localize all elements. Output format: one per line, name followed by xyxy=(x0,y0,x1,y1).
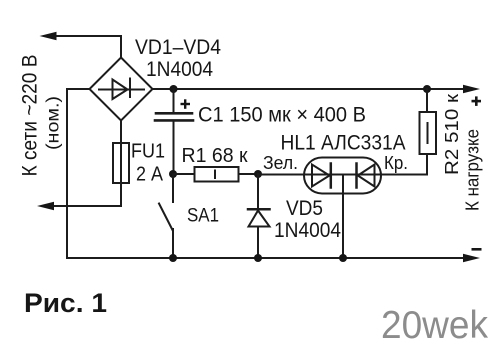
label R1 value xyxy=(182,145,248,167)
svg-text:R1 68 к: R1 68 к xyxy=(182,145,248,167)
svg-text:C1 150 мк × 400 В: C1 150 мк × 400 В xyxy=(198,104,366,127)
LED HL1 green diode xyxy=(312,164,331,188)
svg-text:HL1 АЛС331А: HL1 АЛС331А xyxy=(281,132,406,155)
wire R1 left lead xyxy=(173,173,195,175)
node junction R1 / VD5 / HL1 xyxy=(254,170,262,178)
watermark 20wek xyxy=(381,304,488,347)
label VD5 type xyxy=(274,219,341,242)
wire R1 right lead to node xyxy=(239,173,259,175)
label VD5 xyxy=(286,197,323,220)
node junction HL1 / bottom rail xyxy=(339,254,347,262)
capacitor C1 xyxy=(155,89,193,174)
svg-text:VD1–VD4: VD1–VD4 xyxy=(135,36,221,59)
label 1N4004 bridge xyxy=(146,58,213,81)
bottom rail (-) xyxy=(67,257,466,259)
resistor R1 xyxy=(195,167,239,182)
plus sign output xyxy=(472,96,482,106)
bridge rectifier VD1-VD4 xyxy=(90,58,153,121)
caption Ris. 1 xyxy=(24,288,107,318)
label FU1 xyxy=(131,141,165,163)
svg-text:Зел.: Зел. xyxy=(263,153,298,173)
label SA1 xyxy=(187,206,219,227)
svg-text:SA1: SA1 xyxy=(187,206,219,227)
label 2A xyxy=(136,164,164,186)
resistor R2 xyxy=(420,89,437,175)
node junction top rail / R2 xyxy=(423,85,431,93)
label red xyxy=(384,153,408,173)
diode symbol inside bridge xyxy=(99,79,144,100)
svg-text:R2 510 к: R2 510 к xyxy=(441,93,462,175)
svg-text:Рис. 1: Рис. 1 xyxy=(24,288,107,318)
arrow output minus xyxy=(463,254,480,263)
svg-text:2 А: 2 А xyxy=(136,164,164,186)
label K nagruzke rotated xyxy=(463,129,483,211)
svg-text:VD5: VD5 xyxy=(286,197,323,220)
node junction VD5 / bottom rail xyxy=(254,254,262,262)
wire HL1 through lead xyxy=(258,174,427,176)
wire HL1 common cathode to bottom rail xyxy=(342,175,344,258)
LED HL1 red diode xyxy=(357,164,375,188)
wire bridge bottom vertex through fuse xyxy=(53,121,121,207)
svg-text:К нагрузке: К нагрузке xyxy=(463,129,483,211)
label K seti rotated xyxy=(19,55,42,177)
label C1 value xyxy=(198,104,366,127)
label nom rotated xyxy=(43,96,63,150)
top rail (+) xyxy=(153,88,467,90)
svg-text:(ном.): (ном.) xyxy=(43,96,63,150)
minus sign output xyxy=(472,248,482,251)
diode VD5 xyxy=(248,174,270,258)
arrow AC top xyxy=(40,32,57,41)
node junction top rail / C1 xyxy=(170,85,178,93)
svg-text:Кр.: Кр. xyxy=(384,153,408,173)
LED assembly HL1 package xyxy=(304,158,381,194)
label HL1 xyxy=(281,132,406,155)
wire AC input top line xyxy=(55,36,121,58)
label R2 value rotated xyxy=(441,93,462,175)
label green xyxy=(263,153,298,173)
fuse FU1 xyxy=(113,143,129,183)
svg-text:1N4004: 1N4004 xyxy=(274,219,341,242)
svg-text:1N4004: 1N4004 xyxy=(146,58,213,81)
plus mark C1 xyxy=(181,99,191,109)
svg-text:20wek: 20wek xyxy=(381,304,488,347)
label VD1-VD4 xyxy=(135,36,221,59)
node junction C1 / R1 / SA1 xyxy=(169,170,177,178)
arrow AC bottom xyxy=(37,202,54,211)
svg-text:FU1: FU1 xyxy=(131,141,165,163)
switch SA1 xyxy=(159,174,173,258)
svg-text:К сети ~220 В: К сети ~220 В xyxy=(19,55,42,177)
arrow output plus xyxy=(463,85,480,94)
node junction SA1 / bottom rail xyxy=(169,254,177,262)
wire bridge left vertex to bottom rail xyxy=(67,89,90,258)
